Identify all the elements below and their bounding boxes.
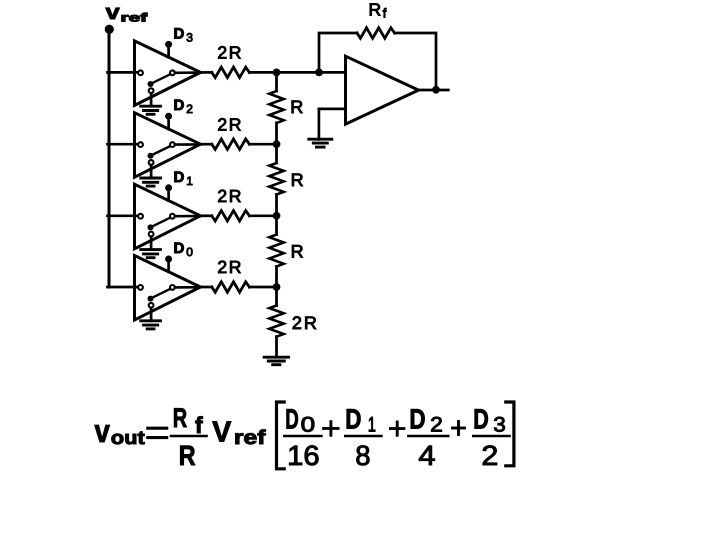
svg-text:R: R <box>173 403 187 433</box>
svg-text:R: R <box>369 0 382 20</box>
svg-text:ref: ref <box>121 11 149 25</box>
svg-text:2R: 2R <box>292 313 319 333</box>
svg-text:f: f <box>195 412 203 438</box>
svg-text:2: 2 <box>186 102 193 116</box>
svg-text:0: 0 <box>186 245 193 259</box>
svg-text:f: f <box>383 6 387 21</box>
svg-text:D: D <box>473 404 489 435</box>
svg-text:D: D <box>285 404 299 435</box>
svg-text:2: 2 <box>430 414 443 437</box>
svg-text:2: 2 <box>481 440 498 471</box>
svg-text:D: D <box>174 97 185 114</box>
svg-text:3: 3 <box>186 30 193 44</box>
svg-text:V: V <box>212 417 232 449</box>
svg-text:1: 1 <box>186 174 193 188</box>
svg-text:out: out <box>111 428 146 449</box>
svg-text:2R: 2R <box>217 186 243 206</box>
svg-text:D: D <box>345 404 361 435</box>
svg-text:D: D <box>174 25 185 42</box>
svg-text:2R: 2R <box>217 43 243 63</box>
svg-text:D: D <box>174 240 185 257</box>
svg-text:R: R <box>179 440 196 471</box>
svg-text:2R: 2R <box>217 257 243 277</box>
svg-text:ref: ref <box>234 427 266 449</box>
svg-text:2R: 2R <box>217 114 243 134</box>
svg-text:R: R <box>291 242 304 262</box>
svg-text:3: 3 <box>493 414 506 437</box>
svg-text:D: D <box>409 404 425 435</box>
svg-text:v: v <box>95 413 110 449</box>
svg-text:16: 16 <box>287 440 320 471</box>
svg-text:0: 0 <box>301 414 316 437</box>
svg-text:R: R <box>290 97 303 117</box>
svg-text:1: 1 <box>368 414 376 437</box>
svg-text:v: v <box>106 1 120 24</box>
svg-text:R: R <box>291 170 304 190</box>
svg-text:8: 8 <box>355 440 370 471</box>
svg-text:4: 4 <box>418 440 435 471</box>
svg-text:D: D <box>174 169 185 186</box>
